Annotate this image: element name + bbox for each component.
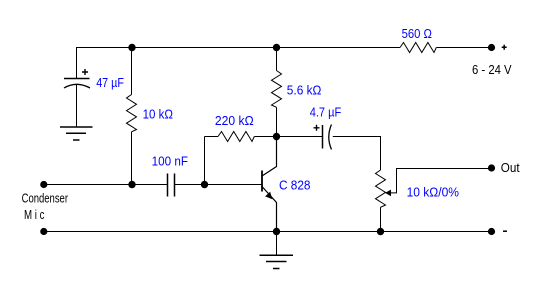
node emitter / ground junction xyxy=(273,228,280,235)
node Out terminal xyxy=(488,164,495,171)
resistor R2 220 kohm xyxy=(218,132,254,142)
capacitor C3 4.7uF straight plate xyxy=(322,125,324,149)
svg-text:Condenser: Condenser xyxy=(22,192,68,206)
wire 10k bottom lead xyxy=(131,132,133,185)
transistor Q1 base bar xyxy=(261,171,263,192)
transistor Q1 emitter arrow xyxy=(265,192,272,200)
wire top rail right to + terminal xyxy=(436,47,491,49)
node junction top rail / 5.6k xyxy=(273,44,280,51)
potentiometer wiper arrow xyxy=(385,190,391,197)
resistor R1 10 kohm xyxy=(127,95,137,132)
svg-text:10 kΩ: 10 kΩ xyxy=(143,108,173,122)
wire C2 to base node xyxy=(175,184,205,186)
svg-text:560 Ω: 560 Ω xyxy=(402,27,432,41)
capacitor C1 47uF top plate xyxy=(64,78,90,80)
wire C3 to potentiometer xyxy=(333,137,381,171)
wire feedback to R2 xyxy=(205,136,219,138)
node junction 10k / input wire xyxy=(128,181,135,188)
capacitor C3 4.7uF curved plate xyxy=(329,125,332,150)
node - output terminal xyxy=(488,228,495,235)
wire pot bottom lead xyxy=(380,207,382,231)
wire feedback vertical xyxy=(204,137,206,185)
svg-text:Out: Out xyxy=(501,161,520,175)
wire pot wiper to Out xyxy=(391,169,492,193)
capacitor C3 polarity + xyxy=(314,125,320,131)
wire 5.6k top lead xyxy=(276,48,278,71)
capacitor C1 polarity + xyxy=(82,69,88,75)
wire C1 to ground xyxy=(76,85,78,127)
svg-text:5.6 kΩ: 5.6 kΩ xyxy=(287,84,322,98)
capacitor C1 47uF curved plate xyxy=(64,84,90,88)
svg-text:10 kΩ/0%: 10 kΩ/0% xyxy=(407,186,459,200)
wire R2 to collector node xyxy=(254,136,276,138)
label - terminal xyxy=(503,230,507,232)
resistor R3 5.6 kohm xyxy=(272,71,282,108)
wire base node to Q1 base xyxy=(205,184,263,186)
svg-text:220 kΩ: 220 kΩ xyxy=(215,114,254,128)
node mic + terminal xyxy=(40,181,47,188)
wire 5.6k bottom lead xyxy=(276,107,278,136)
svg-text:M i c: M i c xyxy=(24,208,45,222)
capacitor C2 100 nF xyxy=(168,174,175,197)
node collector junction xyxy=(273,133,280,140)
svg-text:C 828: C 828 xyxy=(279,179,311,193)
ground G1 xyxy=(60,127,93,140)
node junction top rail / 10k xyxy=(128,44,135,51)
transistor Q1 emitter lead xyxy=(262,187,277,232)
wire collector node to C3 xyxy=(277,136,323,138)
wire 10k top lead xyxy=(131,48,133,95)
ground G2 xyxy=(260,255,294,268)
label + supply xyxy=(502,45,507,50)
svg-text:47 µF: 47 µF xyxy=(96,76,124,90)
svg-text:6 - 24 V: 6 - 24 V xyxy=(472,63,512,77)
node junction pot / ground rail xyxy=(377,228,384,235)
wire top rail left (V+ rail) xyxy=(77,48,401,79)
svg-text:4.7 µF: 4.7 µF xyxy=(310,106,342,120)
potentiometer VR1 10 kohm body xyxy=(376,170,386,207)
node junction base / feedback xyxy=(201,181,208,188)
wire mic input to C2 xyxy=(44,184,168,186)
resistor R4 560 ohm xyxy=(400,43,436,53)
node + supply terminal xyxy=(488,44,495,51)
svg-text:100 nF: 100 nF xyxy=(152,155,189,169)
node mic - terminal xyxy=(40,228,47,235)
wire emitter to ground G2 xyxy=(276,232,278,256)
wire bottom rail xyxy=(44,231,492,233)
transistor Q1 collector lead xyxy=(262,137,277,177)
